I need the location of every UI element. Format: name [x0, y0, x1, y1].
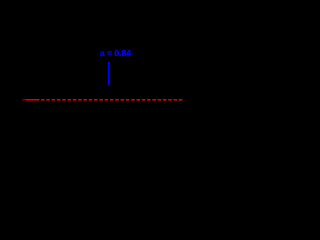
- wire (blue vertical marker line): [108, 62, 110, 85]
- wire (red dashed threshold line, faded lead-in): [22, 99, 26, 101]
- node label a = 0.84: [100, 48, 131, 58]
- wire (red dashed threshold line, dashed run): [41, 99, 183, 101]
- wire (red dashed threshold line, leading solid segment): [26, 99, 40, 101]
